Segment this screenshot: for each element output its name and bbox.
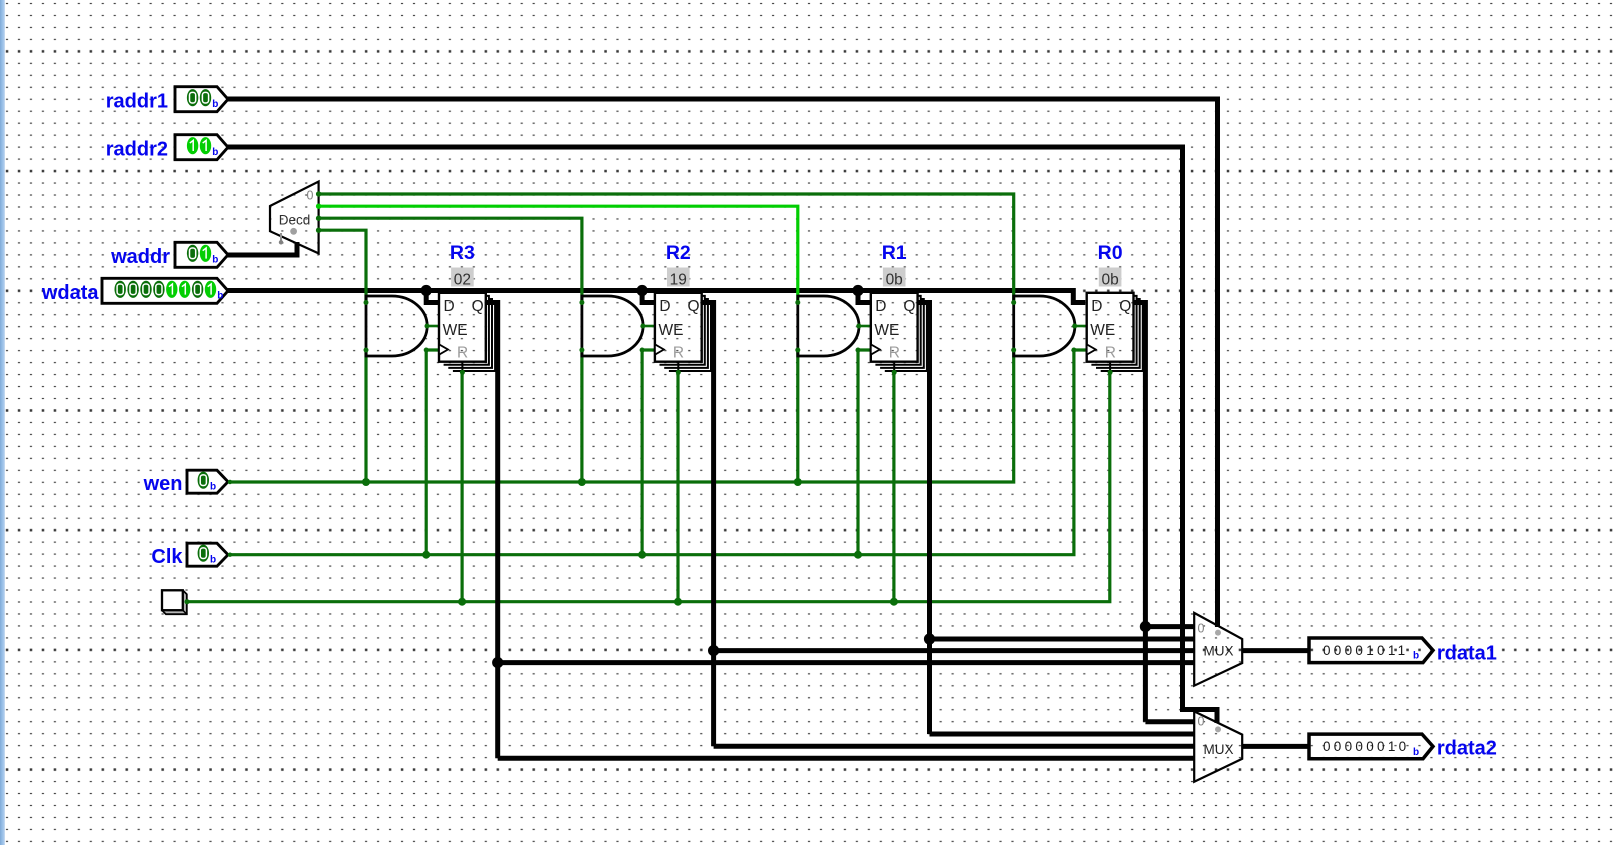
register R0 flip-flop stack (8-bit) [1087, 293, 1143, 372]
AND gate R2 write-enable [579, 296, 645, 356]
decoder U1 (Decd) [270, 182, 319, 254]
junction Clk/R1 [854, 551, 862, 559]
svg-text:rdata2: rdata2 [1437, 738, 1497, 760]
svg-text:0b: 0b [886, 271, 903, 288]
svg-text:b: b [210, 555, 216, 566]
wire MUX2 output to rdata2 [1242, 744, 1309, 749]
junction R2 Q branch [708, 645, 719, 656]
wire reset riser to R1 R pin [892, 372, 895, 602]
input pin wen (1-bit, value 0) [187, 470, 228, 493]
wire R1 Q output down to MUX rows [918, 303, 930, 735]
wire Clk riser to R3 clock pin [426, 350, 439, 555]
svg-text:b: b [212, 99, 218, 110]
wire R1 AND output to WE pin [859, 325, 871, 328]
junction reset/R3 [458, 598, 466, 606]
wen pin connection dot [228, 480, 232, 484]
wire wdata tap to R1 D input [858, 291, 871, 303]
svg-text:0: 0 [1198, 714, 1205, 728]
R1 clock connection dot [856, 348, 861, 353]
wire wen net (horizontal distribution, rises to each AND gate input 2) [228, 350, 1014, 482]
wire raddr1 bus to MUX1 select [228, 99, 1218, 627]
decoder output port dots [316, 191, 321, 233]
canvas left edge strip [0, 0, 5, 845]
wire R0 Q to MUX2 input 0 [1145, 719, 1194, 724]
value label R1 = 0b [883, 268, 906, 289]
wire raddr2 bus to MUX2 select [228, 147, 1218, 723]
wire decoder output 3 to R3 AND gate input 1 [319, 230, 366, 302]
multiplexer U3 (rdata2 MUX) [1194, 711, 1242, 781]
wire R0 Q output down to MUX rows [1134, 303, 1146, 722]
value label R0 = 0b [1099, 268, 1122, 289]
R0 R-pin connection dot [1108, 370, 1113, 375]
input pin Clk (1-bit, value 0) [187, 543, 228, 566]
output pin rdata2 (value 00000010) [1309, 734, 1433, 759]
svg-text:0b: 0b [1101, 271, 1118, 288]
svg-text:R2: R2 [666, 242, 691, 264]
svg-text:R: R [673, 345, 684, 362]
R2 R-pin connection dot [676, 370, 681, 375]
AND gate R0 write-enable [1011, 296, 1077, 356]
input pin wdata (8-bit, value 00001101) [102, 278, 228, 303]
wire R0 Q to MUX1 input 0 [1145, 624, 1194, 629]
value label R2 = 19 [667, 268, 690, 289]
input pin raddr1 (2-bit, value 00) [175, 87, 228, 112]
svg-text:Q: Q [688, 298, 700, 315]
svg-text:WE: WE [443, 322, 468, 339]
wire wdata tap to R2 D input [642, 291, 655, 303]
junction wdata/R1 [852, 285, 863, 296]
svg-text:Decd: Decd [279, 213, 311, 228]
svg-text:D: D [659, 298, 670, 315]
R3 clock connection dot [424, 348, 429, 353]
svg-text:b: b [212, 255, 218, 266]
wire Clk net (horizontal distribution, rises to each register clock) [228, 350, 1087, 555]
junction wdata/R3 [421, 285, 432, 296]
register R3 flip-flop stack (8-bit) [439, 293, 495, 372]
svg-text:WE: WE [1090, 322, 1115, 339]
wire R2 Q output down to MUX rows [702, 303, 714, 747]
svg-text:b: b [212, 147, 218, 158]
wire reset riser to R3 R pin [461, 372, 464, 602]
svg-text:02: 02 [454, 271, 471, 288]
input pin raddr2 (2-bit, value 11) [175, 135, 228, 160]
junction wen/R1 [794, 478, 802, 486]
wire Clk riser to R1 clock pin [858, 350, 871, 555]
wire R0 AND output to WE pin [1075, 325, 1087, 328]
svg-text:rdata1: rdata1 [1437, 642, 1497, 664]
wire Clk riser to R2 clock pin [642, 350, 655, 555]
wire wdata bus (to R3,R2,R1 taps and R0 D input) [228, 291, 1086, 303]
wire reset net from button to register R pins [186, 372, 1110, 602]
wire wen riser to R2 AND input 2 [580, 350, 583, 482]
svg-text:R1: R1 [882, 242, 907, 264]
svg-text:D: D [1091, 298, 1102, 315]
svg-text:Q: Q [1119, 298, 1131, 315]
svg-text:R: R [889, 345, 900, 362]
svg-text:raddr2: raddr2 [106, 139, 168, 161]
AND gate R1 write-enable [795, 296, 861, 356]
svg-text:raddr1: raddr1 [106, 91, 168, 113]
wire decoder output 2 to R2 AND gate input 1 [319, 218, 582, 302]
svg-text:WE: WE [874, 322, 899, 339]
R0 clock connection dot [1071, 348, 1076, 353]
svg-text:R3: R3 [450, 242, 475, 264]
svg-text:D: D [875, 298, 886, 315]
wire decoder output 0 to R0 AND gate input 1 [319, 194, 1014, 303]
junction reset/R2 [674, 598, 682, 606]
svg-text:00001011: 00001011 [1323, 643, 1408, 658]
svg-text:waddr: waddr [110, 246, 170, 268]
svg-text:R: R [457, 345, 468, 362]
svg-text:wdata: wdata [41, 282, 100, 304]
svg-text:b: b [1413, 747, 1419, 758]
wire waddr bus to decoder select [228, 242, 298, 255]
R1 R-pin connection dot [892, 370, 897, 375]
button connection dot [184, 599, 189, 604]
junction wen/R3 [362, 478, 370, 486]
svg-text:00000010: 00000010 [1323, 739, 1409, 754]
Clk pin connection dot [228, 553, 232, 557]
wire wdata tap to R3 D input [426, 291, 439, 303]
svg-text:Clk: Clk [151, 546, 183, 568]
wire MUX1 output to rdata1 [1242, 648, 1309, 653]
register R1 flip-flop stack (8-bit) [871, 293, 927, 372]
svg-text:D: D [444, 298, 455, 315]
junction R3 Q branch [492, 657, 503, 668]
register R2 flip-flop stack (8-bit) [655, 293, 711, 372]
wire R1 Q to MUX2 input 1 [930, 732, 1195, 737]
svg-text:R0: R0 [1098, 242, 1123, 264]
wire R2 Q to MUX1 input 2 [714, 648, 1195, 653]
svg-text:R: R [1105, 345, 1116, 362]
wire R2 AND output to WE pin [643, 325, 655, 328]
wire R3 Q to MUX2 input 3 [498, 756, 1195, 761]
svg-text:19: 19 [670, 271, 687, 288]
multiplexer U2 (rdata1 MUX) [1194, 613, 1242, 686]
svg-text:MUX: MUX [1204, 742, 1234, 757]
push button (reset source) [162, 590, 187, 614]
wire R3 Q output down to MUX rows [486, 303, 498, 759]
value label R3 = 02 [451, 268, 474, 289]
wire R3 AND output to WE pin [427, 325, 439, 328]
junction R1 Q branch [924, 633, 935, 644]
wire reset riser to R2 R pin [676, 372, 679, 602]
wire R3 Q to MUX1 input 3 [498, 660, 1195, 665]
svg-text:b: b [210, 482, 216, 493]
svg-text:Q: Q [903, 298, 915, 315]
junction reset/R1 [890, 598, 898, 606]
R3 R-pin connection dot [460, 370, 465, 375]
svg-text:b: b [217, 291, 223, 302]
svg-text:WE: WE [659, 322, 684, 339]
svg-text:b: b [1413, 651, 1419, 662]
input pin waddr (2-bit, value 01) [175, 242, 228, 267]
svg-text:0: 0 [307, 189, 314, 203]
junction wdata/R2 [637, 285, 648, 296]
wire wen riser to R3 AND input 2 [364, 350, 367, 482]
AND gate R3 write-enable [364, 296, 430, 356]
R2 clock connection dot [640, 348, 645, 353]
junction Clk/R2 [638, 551, 646, 559]
wire R1 Q to MUX1 input 1 [930, 637, 1195, 642]
junction Clk/R3 [422, 551, 430, 559]
junction wen/R2 [578, 478, 586, 486]
junction R0 Q branch [1140, 621, 1151, 632]
svg-text:Q: Q [472, 298, 484, 315]
wire R2 Q to MUX2 input 2 [714, 744, 1195, 749]
svg-text:wen: wen [143, 473, 183, 495]
wire decoder output 1 to R1 AND gate input 1 [319, 206, 798, 302]
svg-text:MUX: MUX [1204, 644, 1234, 659]
output pin rdata1 (value 00001011) [1309, 638, 1433, 663]
svg-text:0: 0 [1198, 621, 1205, 635]
wire wen riser to R1 AND input 2 [796, 350, 799, 482]
